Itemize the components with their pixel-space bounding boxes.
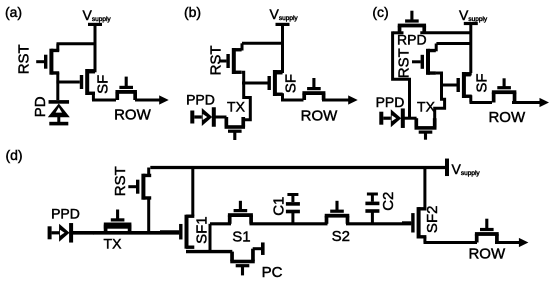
transistor ROW select (c) bbox=[492, 78, 516, 102]
terminal tick PC (d) bbox=[261, 242, 265, 255]
wire SF1 drain up to rail (d) bbox=[191, 168, 194, 217]
transistor SF2 (d) bbox=[402, 207, 426, 238]
wire signal segment 2 (d) bbox=[250, 222, 328, 225]
wire PPD to TX (d) bbox=[69, 231, 94, 235]
panel label (a) bbox=[5, 4, 22, 20]
output arrow (c) bbox=[512, 98, 549, 107]
wire signal segment 3 (d) bbox=[346, 222, 411, 225]
wire RST source to PD node (a) bbox=[56, 72, 59, 100]
wire PPD to TX (c) bbox=[401, 117, 417, 120]
wire RST drain up to rail (c) bbox=[435, 44, 438, 52]
svg-text:PPD: PPD bbox=[186, 92, 215, 108]
wire RST drain to rail (b) bbox=[241, 43, 244, 50]
panel label (d) bbox=[5, 147, 22, 163]
transistor S1 (d) bbox=[228, 201, 253, 224]
V_supply terminal (a) bbox=[83, 7, 112, 26]
V_supply terminal (c) bbox=[459, 7, 488, 25]
wire RST source column (c) bbox=[435, 73, 445, 126]
label SF (b) bbox=[282, 74, 299, 93]
wire output row (b) bbox=[281, 99, 304, 102]
transistor S2 (d) bbox=[325, 201, 350, 224]
svg-text:RST: RST bbox=[396, 48, 413, 78]
svg-text:RST: RST bbox=[15, 44, 32, 74]
svg-text:SF1: SF1 bbox=[194, 216, 211, 244]
label ROW (a) bbox=[114, 107, 152, 124]
transistor RST (b) bbox=[219, 48, 242, 74]
label C1 (d) bbox=[271, 197, 288, 216]
svg-text:(a): (a) bbox=[5, 4, 22, 20]
transistor PC (d) bbox=[230, 249, 255, 276]
capacitor C2 (d) bbox=[365, 193, 379, 224]
label PPD (c) bbox=[376, 94, 405, 110]
output arrow (d) bbox=[495, 238, 528, 247]
label RPD (c) bbox=[397, 32, 427, 48]
wire SF2 source down to output (d) bbox=[423, 237, 426, 243]
wire SF drain stub to V line (b) bbox=[277, 71, 283, 74]
wire SF drain stub to V line (c) bbox=[466, 73, 471, 76]
wire SF source down to output (b) bbox=[281, 93, 284, 100]
svg-text:SF: SF bbox=[282, 74, 299, 93]
wire SF1 source to PC node (d) bbox=[186, 250, 232, 253]
svg-text:TX: TX bbox=[104, 235, 123, 251]
photodiode PPD (c) bbox=[379, 108, 405, 128]
transistor RPD (c) bbox=[398, 11, 426, 33]
label RST (a) bbox=[15, 44, 32, 74]
wire SF drain stub to V line (a) bbox=[89, 70, 95, 73]
transistor RST (a) bbox=[36, 49, 59, 75]
transistor ROW select (b) bbox=[302, 78, 325, 100]
transistor ROW select (d) bbox=[475, 219, 499, 243]
panel label (c) bbox=[372, 4, 388, 20]
wire output row (c) bbox=[470, 101, 493, 104]
svg-text:(b): (b) bbox=[184, 4, 201, 20]
label SF (c) bbox=[474, 73, 491, 92]
label PD (a) bbox=[32, 96, 49, 117]
label ROW (d) bbox=[468, 246, 506, 263]
svg-text:ROW: ROW bbox=[488, 109, 526, 126]
label C2 (d) bbox=[380, 192, 397, 211]
svg-text:PD: PD bbox=[32, 96, 49, 117]
transistor RST (c) bbox=[412, 49, 436, 75]
transistor TX (c) bbox=[415, 118, 437, 140]
wire output row (a) bbox=[92, 99, 116, 102]
wire SF gate lead (c) bbox=[441, 84, 457, 87]
svg-text:ROW: ROW bbox=[468, 246, 506, 263]
label ROW (c) bbox=[488, 109, 526, 126]
label TX (c) bbox=[417, 99, 436, 115]
svg-text:ROW: ROW bbox=[301, 108, 339, 125]
V_supply terminal (b) bbox=[270, 6, 299, 26]
svg-text:TX: TX bbox=[417, 99, 436, 115]
wire top rail (b) bbox=[242, 42, 283, 45]
label PPD (d) bbox=[51, 206, 80, 222]
svg-text:SF: SF bbox=[94, 75, 111, 94]
wire RST rail to V_supply (c) bbox=[436, 42, 470, 45]
svg-text:S2: S2 bbox=[332, 228, 350, 245]
svg-text:C1: C1 bbox=[271, 197, 288, 216]
wire top supply rail (d) bbox=[150, 166, 445, 169]
wire PC right leg to tick (d) bbox=[253, 247, 261, 250]
label SF1 (d) bbox=[194, 216, 211, 244]
label SF2 (d) bbox=[424, 206, 441, 234]
transistor TX (b) bbox=[225, 117, 246, 140]
transistor SF (b) bbox=[242, 70, 283, 96]
wire V_supply down to SF drain (b) bbox=[281, 26, 284, 73]
wire left column to PPD node (c) bbox=[393, 31, 410, 118]
wire FD node TX to SF1 (d) bbox=[93, 231, 179, 235]
svg-text:ROW: ROW bbox=[114, 107, 152, 124]
svg-text:SF2: SF2 bbox=[424, 206, 441, 234]
label RST (c) bbox=[396, 48, 413, 78]
label SF (a) bbox=[94, 75, 111, 94]
label S2 (d) bbox=[332, 228, 350, 245]
wire V_supply down to SF drain (c) bbox=[469, 25, 472, 73]
label S1 (d) bbox=[232, 228, 250, 245]
wire RST drain up to rail (d) bbox=[147, 168, 150, 177]
svg-text:RST: RST bbox=[207, 45, 224, 75]
svg-text:C2: C2 bbox=[380, 192, 397, 211]
wire PPD to TX (b) bbox=[212, 116, 227, 119]
svg-text:TX: TX bbox=[227, 99, 246, 115]
capacitor C1 (d) bbox=[286, 193, 300, 224]
label PPD (b) bbox=[186, 92, 215, 108]
wire RPD left leg to left column (c) bbox=[393, 31, 404, 34]
svg-text:PC: PC bbox=[262, 264, 283, 281]
panel label (b) bbox=[184, 4, 201, 20]
wire output row (d) bbox=[424, 241, 478, 244]
label RST (d) bbox=[112, 166, 129, 196]
wire RST source down to FD (d) bbox=[147, 198, 150, 233]
svg-text:(d): (d) bbox=[5, 147, 22, 163]
photodiode PPD (b) bbox=[190, 107, 216, 127]
photodiode PPD (d) bbox=[48, 223, 74, 243]
label TX (b) bbox=[227, 99, 246, 115]
label RST (b) bbox=[207, 45, 224, 75]
transistor RST (d) bbox=[128, 174, 151, 200]
wire SF2 drain up to rail (d) bbox=[423, 168, 426, 209]
wire V_supply to rail and SF drain (a) bbox=[94, 26, 97, 72]
svg-text:PPD: PPD bbox=[51, 206, 80, 222]
transistor TX (d) bbox=[104, 210, 132, 233]
output arrow (b) bbox=[322, 95, 358, 104]
wire RST source column to TX (b) bbox=[242, 72, 251, 125]
svg-text:S1: S1 bbox=[232, 228, 250, 245]
photodiode PD (a) bbox=[48, 100, 70, 125]
svg-text:PPD: PPD bbox=[376, 94, 405, 110]
svg-text:RST: RST bbox=[112, 166, 129, 196]
wire RPD right leg to V_supply (c) bbox=[420, 31, 471, 34]
label PC (d) bbox=[262, 264, 283, 281]
transistor SF (a) bbox=[56, 69, 95, 95]
wire signal segment 1 (d) bbox=[210, 222, 231, 225]
V_supply terminal (d) bbox=[445, 159, 480, 177]
transistor ROW select (a) bbox=[115, 77, 137, 100]
wire SF source down to output (c) bbox=[469, 95, 472, 102]
label TX (d) bbox=[104, 235, 123, 251]
output arrow (a) bbox=[135, 95, 169, 104]
wire RST drain to rail (a) bbox=[56, 44, 59, 52]
svg-text:SF: SF bbox=[474, 73, 491, 92]
transistor SF (c) bbox=[442, 72, 472, 98]
wire SF source down to output (a) bbox=[92, 92, 95, 100]
wire junction up to signal wire (d) bbox=[209, 224, 212, 252]
transistor SF1 (d) bbox=[160, 215, 194, 249]
label ROW (b) bbox=[301, 108, 339, 125]
wire top rail (a) bbox=[57, 42, 96, 45]
svg-text:(c): (c) bbox=[372, 4, 388, 20]
